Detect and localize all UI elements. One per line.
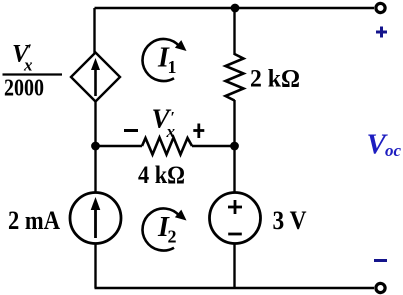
mesh current I1 arrow [143,39,187,81]
node A junction dot (left middle) [91,142,100,151]
wire top horizontal [95,7,375,9]
label I2 [157,212,177,247]
svg-text:1: 1 [168,57,177,77]
voltage source minus [228,233,242,236]
wire middle left segment [96,145,143,147]
resistor 2 kOhm [226,54,244,101]
svg-text:4 kΩ: 4 kΩ [138,162,185,189]
label minus terminal (blue) [374,259,387,262]
svg-text:x: x [166,122,176,141]
terminal top right (open circle) [376,3,385,12]
node junction dot top (node B) [231,4,240,13]
svg-text:2000: 2000 [4,76,44,102]
label Vx'/2000 [3,41,63,102]
current source arrow [91,197,101,238]
svg-text:x: x [23,56,33,75]
terminal bottom right (open circle) [376,283,385,292]
wire top-left vertical (to dependent source) [93,8,95,53]
wire dependent source to node A [94,102,96,147]
resistor 4 kOhm [142,138,192,155]
wire 2mA source to bottom wire [94,244,96,289]
label Vx' (above 4k) [152,104,176,142]
svg-text:2: 2 [168,227,177,247]
label I1 [157,43,177,78]
label minus (4k polarity) [124,129,138,132]
dependent current source diamond [71,53,120,102]
label plus terminal (blue) [376,27,387,38]
svg-text:2 kΩ: 2 kΩ [250,66,300,93]
wire 2k resistor to node C [233,100,235,146]
wire 3V source to bottom wire [233,244,235,289]
voltage source 3V circle [210,193,261,244]
label plus (4k polarity) [193,124,204,139]
wire node C down to 3V source [233,146,235,193]
mesh current I2 arrow [143,209,187,251]
svg-text:3 V: 3 V [273,206,307,235]
current source 2 mA circle [70,193,121,244]
wire top node to 2k resistor [233,8,235,55]
label Voc (blue) [367,129,402,161]
svg-text:oc: oc [385,141,402,160]
node C junction dot (right middle) [230,142,239,151]
dependent source arrow [91,58,100,96]
svg-text:2 mA: 2 mA [8,206,60,235]
wire node A down to 2mA source [94,146,96,193]
wire middle right segment [192,145,235,147]
voltage source plus [228,200,242,214]
wire bottom horizontal [95,287,375,289]
